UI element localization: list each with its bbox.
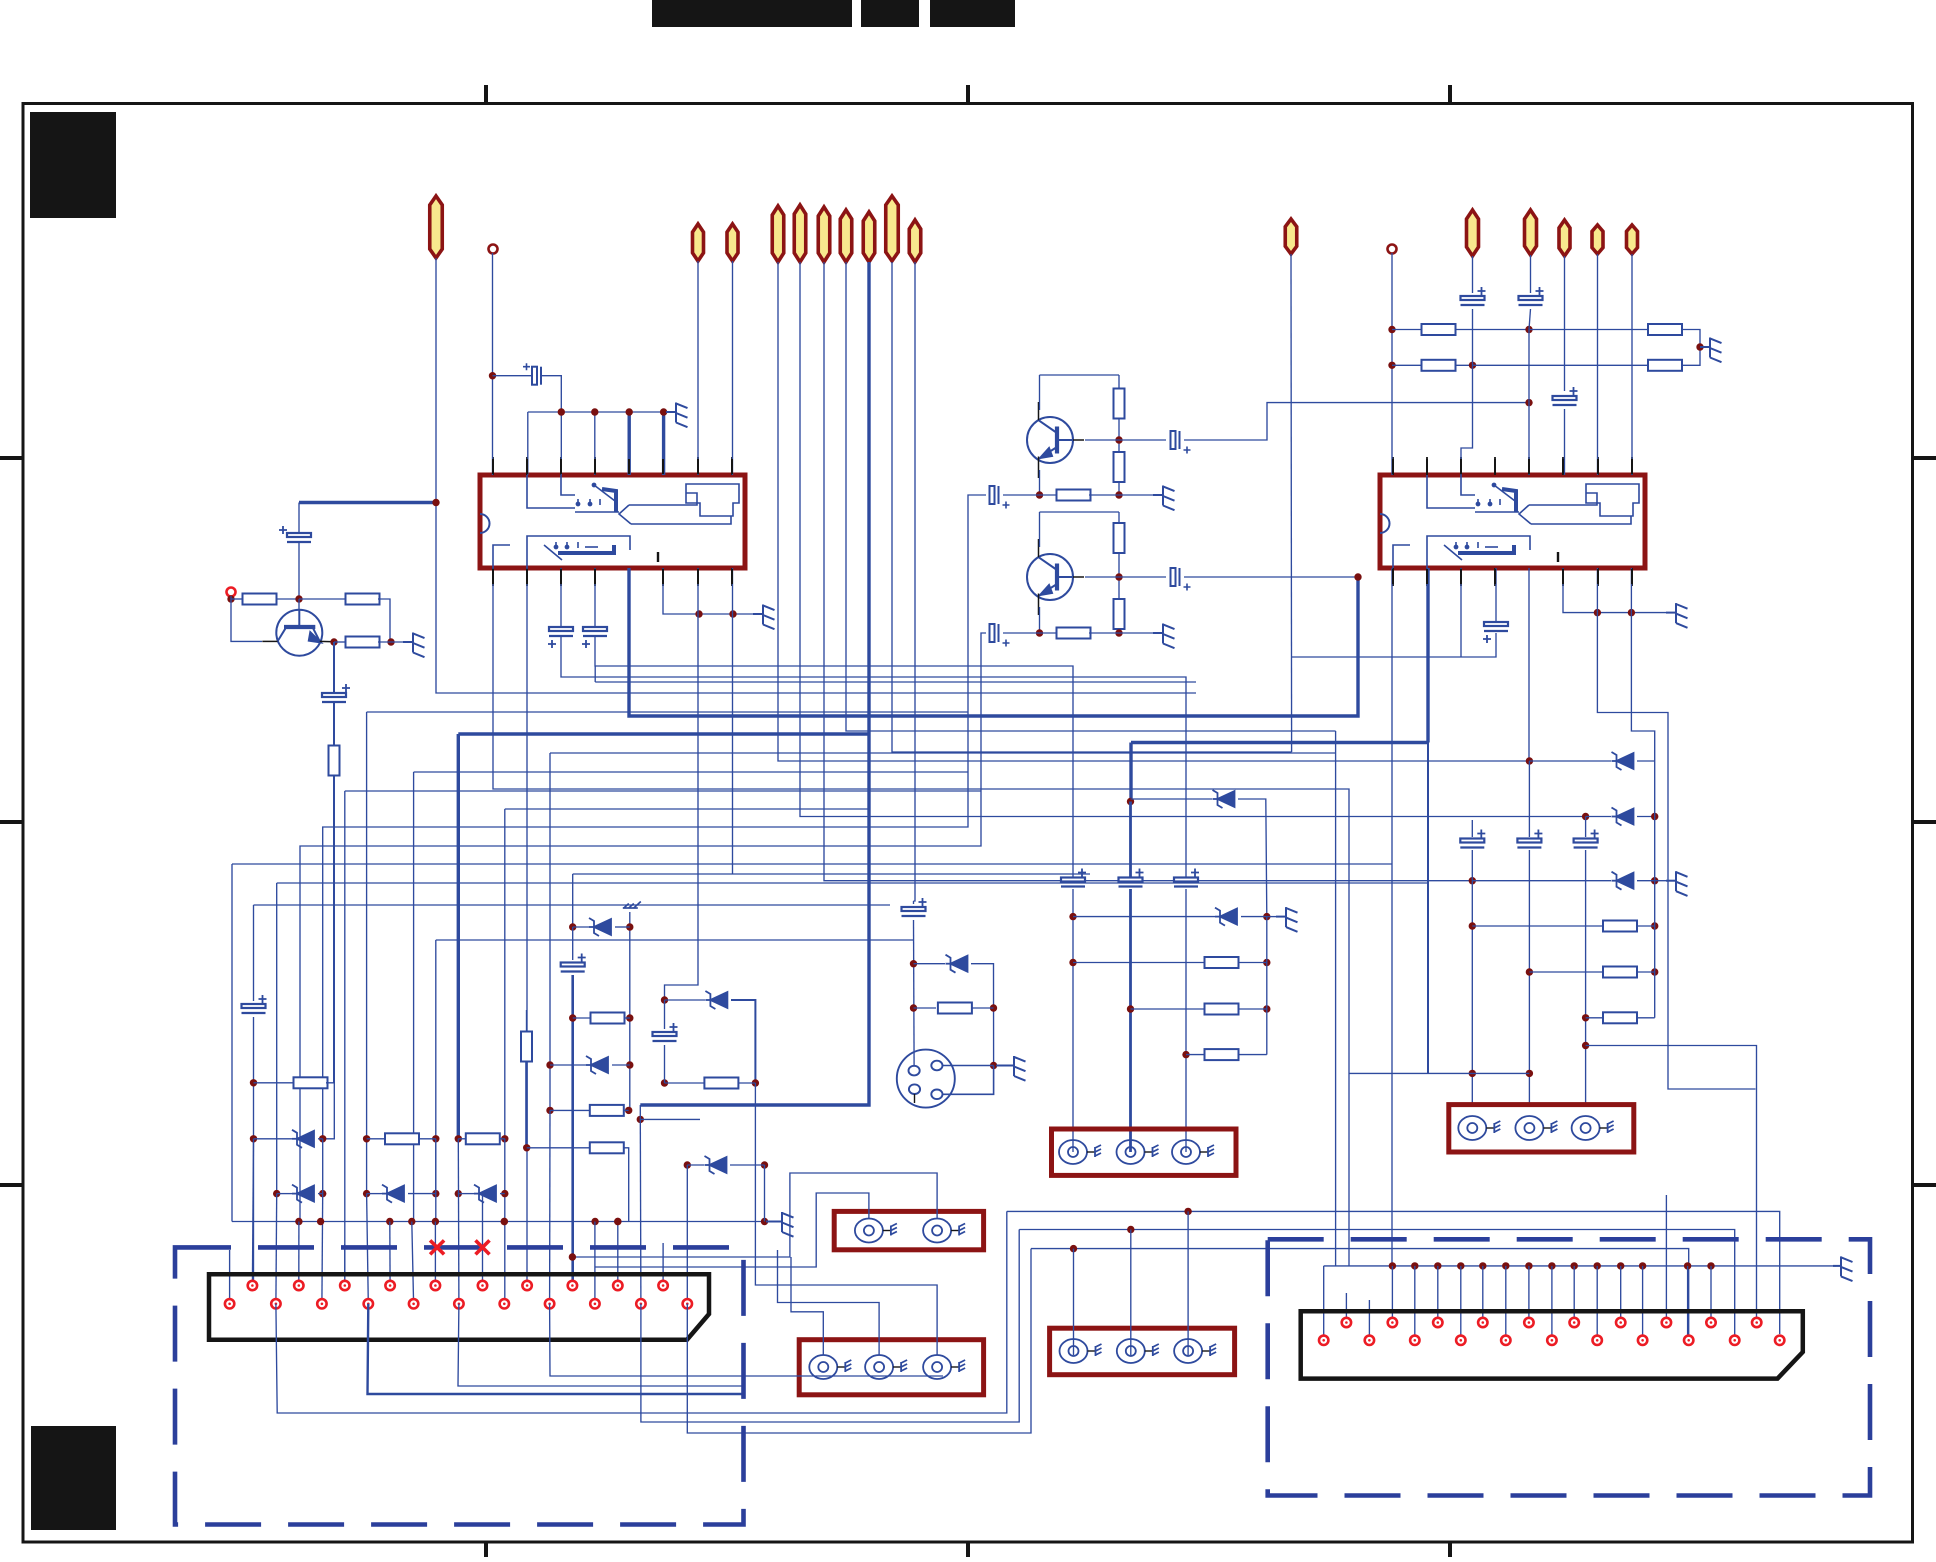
connector pin J8-top4 — [1478, 1318, 1487, 1327]
wire battery top — [298, 503, 300, 534]
node — [729, 610, 736, 617]
wire node to Q1 base — [298, 599, 300, 610]
IC U2 top pin stub — [1494, 457, 1496, 475]
capacitor C2 — [1171, 431, 1191, 454]
connector pin J8-bot3 — [1410, 1336, 1419, 1345]
IC pin stub overlay — [731, 569, 733, 584]
ground GND13 — [766, 1212, 794, 1237]
wire D7 cathode loop — [731, 1000, 755, 1083]
wire D9 cathode — [1241, 916, 1267, 918]
wire P14 down — [1564, 256, 1566, 391]
ground GND3 — [1666, 603, 1688, 628]
wire SCART pin — [298, 1222, 300, 1286]
wire U2 pin 2 route lower — [1427, 743, 1429, 1074]
connector jack J1b — [1117, 1140, 1159, 1164]
wire R23 right — [738, 1082, 755, 1084]
ground GND5 — [1153, 624, 1175, 649]
node — [1434, 1262, 1441, 1269]
wire C14 to node — [1472, 309, 1474, 365]
wire to jack J5b — [1130, 1230, 1132, 1356]
diode D14 — [1213, 790, 1235, 808]
capacitor C14 — [1461, 287, 1486, 305]
resistor R15 — [1648, 360, 1682, 371]
node — [1651, 922, 1658, 929]
wire AV pin stub — [1368, 1300, 1370, 1340]
IC pin stub overlay — [560, 569, 562, 584]
resistor R17 — [385, 1133, 419, 1144]
wire D2 cathode — [318, 1193, 323, 1195]
wire right column link — [1654, 761, 1656, 1018]
capacitor C8 — [1460, 830, 1485, 848]
IC U2 bottom pin stub — [1392, 568, 1394, 586]
wire D5 anode — [573, 926, 589, 928]
wire to R12 — [1392, 329, 1424, 331]
ground GND1 — [666, 403, 688, 428]
wire battery to P1 net — [299, 501, 436, 504]
node — [408, 1218, 415, 1225]
wire to SCART pin — [275, 1194, 278, 1304]
wire route to jack J4a — [791, 1257, 823, 1355]
IC U1 pin-1 mark — [657, 552, 659, 562]
wire C12 to C7 — [561, 637, 1186, 877]
IC U2 flag outline — [1586, 484, 1639, 516]
resistor R30 — [1603, 1012, 1637, 1023]
node — [1263, 1005, 1270, 1012]
wire SCART pin — [412, 1222, 414, 1304]
connector pin J8-top7 — [1616, 1318, 1625, 1327]
resistor R7 — [1114, 452, 1125, 482]
IC pin stub overlay — [1562, 569, 1564, 584]
wire P3 to U1 pin 8 — [732, 261, 734, 475]
node — [432, 1190, 439, 1197]
connector pin J7-15 — [364, 1299, 373, 1308]
IC U1 bottom pin stub — [526, 568, 528, 586]
node — [910, 960, 917, 967]
wire C7 to jack J1c — [1185, 889, 1187, 1152]
wire net G down — [572, 874, 574, 927]
node — [661, 996, 668, 1003]
node — [363, 1190, 370, 1197]
resistor R22 — [590, 1142, 624, 1153]
wire R26 right — [1238, 1008, 1267, 1010]
wire D12 anode — [1472, 880, 1611, 882]
wire D5 cathode — [615, 926, 630, 928]
node — [295, 1218, 302, 1225]
wire R9 top — [1118, 512, 1120, 523]
wire to R24 — [914, 1007, 937, 1009]
wire thick net to U2 — [1131, 741, 1428, 744]
border tick — [1448, 85, 1452, 103]
connector pin J7-18 — [294, 1281, 303, 1290]
connector pin J8-bot8 — [1638, 1336, 1647, 1345]
wire C8 top stub — [1471, 820, 1473, 837]
IC U1 top pin stub — [526, 457, 528, 475]
node — [569, 1014, 576, 1021]
wire D4 cathode — [500, 1193, 505, 1195]
IC pin stub overlay — [1426, 459, 1428, 474]
connector jack J2c — [1572, 1116, 1614, 1140]
wire emitter to R8 — [1040, 494, 1059, 496]
wire C1 to supply bus — [542, 376, 561, 412]
connector jack J4b — [865, 1355, 907, 1379]
wire C19 stub — [913, 901, 915, 904]
connector pin P2 — [693, 224, 704, 261]
wire to SCART pin 21 — [686, 1165, 688, 1304]
node — [546, 1061, 553, 1068]
node — [1582, 1014, 1589, 1021]
resistor R14 — [1648, 324, 1682, 335]
IC U1 bottom pin stub — [731, 568, 733, 586]
node — [1594, 609, 1601, 616]
wire Q2 collector top — [1040, 374, 1120, 376]
wire R12 to node — [1455, 329, 1529, 331]
node — [387, 638, 394, 645]
wire C20 down to SCART — [253, 1017, 255, 1286]
resistor R13 — [1422, 360, 1456, 371]
wire AV bus to pin — [1710, 1266, 1712, 1323]
wire U1 pin 5 to Q3 output node — [629, 568, 1358, 716]
connector pin P9 — [886, 196, 899, 261]
wire route to jack J3b — [572, 1173, 937, 1257]
wire long net B — [277, 882, 1428, 884]
wire net E down — [457, 734, 460, 1139]
wire P16 to U2 pin 8 — [1631, 254, 1633, 475]
IC U1 notch — [480, 514, 490, 533]
wire U1 pin to C12 — [560, 568, 562, 627]
IC pin stub overlay — [492, 459, 494, 474]
IC pin stub overlay — [1562, 459, 1564, 474]
connector pin P3 — [727, 224, 738, 261]
wire down to SCART pin — [504, 1139, 506, 1304]
wire AV bus to pin — [1528, 1266, 1530, 1323]
wire node to R14 — [1529, 329, 1649, 331]
connector pin J7-9 — [500, 1299, 509, 1308]
wire D2 anode — [277, 1193, 292, 1195]
wire long net H4 — [505, 808, 869, 810]
wire to SCART pin — [321, 1194, 324, 1304]
node — [455, 1190, 462, 1197]
node — [1651, 813, 1658, 820]
wire U2 pin to C11 — [1495, 568, 1497, 621]
IC U2 top pin stub — [1528, 457, 1530, 475]
wire R3 to ground — [378, 641, 403, 643]
IC U2 — [1380, 475, 1645, 568]
wire D10 cathode — [1637, 760, 1655, 762]
wire R21 top — [526, 1010, 528, 1032]
wire C8 down — [1471, 850, 1473, 1073]
wire net F down — [549, 753, 551, 1110]
node — [1639, 1262, 1646, 1269]
IC U2 top pin stub — [1597, 457, 1599, 475]
resistor R1 — [243, 594, 277, 605]
connector pin J7-17 — [317, 1299, 326, 1308]
wire R26 row — [1131, 1008, 1206, 1010]
wire node right — [640, 1118, 700, 1120]
node — [1127, 798, 1134, 805]
wire Q3 collector — [1039, 512, 1041, 547]
wire R25 row — [1073, 962, 1205, 964]
connector pin P16 — [1627, 225, 1638, 254]
connector pin P8 — [863, 212, 875, 262]
capacitor C21 — [561, 954, 586, 972]
wire D12 cathode — [1637, 880, 1655, 882]
wire SCART pin stub — [229, 1250, 231, 1304]
wire long net H5 — [254, 904, 891, 906]
IC U1 output arrow — [619, 493, 731, 524]
ground GND14 — [1833, 1256, 1853, 1281]
wire C10 down to jack — [1585, 850, 1587, 1105]
connector pin J8-bot5 — [1501, 1336, 1510, 1345]
IC pin stub overlay — [492, 569, 494, 584]
connector box J4 — [799, 1340, 983, 1395]
wire P1 long route — [436, 258, 1196, 693]
wire thick net down — [1129, 743, 1132, 802]
node — [432, 1218, 439, 1225]
wire Q3 base to divider — [1085, 576, 1119, 578]
capacitor C16 — [322, 684, 350, 702]
connector pin J7-12 — [431, 1281, 440, 1290]
node — [1582, 1042, 1589, 1049]
IC pin stub overlay — [697, 459, 699, 474]
IC pin stub overlay — [1494, 459, 1496, 474]
diode D4 — [474, 1185, 496, 1203]
IC U1 top pin stub — [560, 457, 562, 475]
wire bus to U1 pin 4 — [594, 412, 596, 475]
wire AV pin riser — [1665, 1195, 1667, 1323]
wire T2 to U2 pin 1 — [1391, 253, 1393, 475]
corner redaction block top-left — [30, 112, 116, 218]
wire Q3 out to C4 — [1119, 576, 1166, 578]
IC U1 top pin stub — [662, 457, 664, 475]
node — [1548, 1262, 1555, 1269]
wire net down to C6 — [1129, 802, 1132, 878]
node — [1263, 913, 1270, 920]
wire net B down — [276, 883, 278, 1194]
node — [501, 1218, 508, 1225]
wire C19 down to DIN — [913, 920, 916, 1066]
node — [752, 1079, 759, 1086]
connector box J5 — [1050, 1328, 1235, 1375]
node — [546, 1107, 553, 1114]
wire to C21 — [572, 927, 574, 960]
node — [761, 1161, 768, 1168]
connector pin J7-20 — [248, 1281, 257, 1290]
wire R27 row — [1186, 1054, 1205, 1056]
connector pin P1 — [430, 196, 443, 258]
node — [1411, 1262, 1418, 1269]
node — [1036, 491, 1043, 498]
wire U1 pin to ground bus — [663, 568, 753, 614]
wire emitter down to C16 — [333, 642, 335, 693]
wire node up — [639, 1105, 641, 1119]
node — [990, 1004, 997, 1011]
wire AV bus to pin — [1482, 1266, 1484, 1323]
IC pin stub overlay — [697, 569, 699, 584]
wire U2 route to D10 — [1631, 613, 1654, 761]
wire R11 to ground — [1089, 632, 1153, 634]
wire to SCART pin — [367, 1194, 369, 1304]
wire D10 to C9 — [1528, 761, 1530, 837]
wire D14 cathode down — [1238, 799, 1267, 917]
wire C3 input route — [323, 495, 986, 1139]
border tick — [966, 85, 970, 103]
capacitor C20 — [242, 995, 267, 1013]
wire SCART ground bus — [232, 1221, 765, 1223]
connector pin P7 — [840, 210, 852, 262]
wire U1 pin to C13 — [594, 568, 596, 627]
node — [455, 1135, 462, 1142]
wire C5c to emitter — [1003, 632, 1040, 634]
node — [695, 610, 702, 617]
wire C22 down — [664, 1045, 666, 1083]
IC U1 top pin stub — [697, 457, 699, 475]
node — [501, 1135, 508, 1142]
wire route to jack J3a — [595, 1193, 869, 1267]
diode D11 — [1612, 808, 1634, 826]
wire long net C — [367, 711, 968, 713]
node — [1571, 1262, 1578, 1269]
wire R8 to ground — [1089, 494, 1153, 496]
wire P7 route — [846, 262, 1336, 731]
IC pin stub overlay — [1631, 459, 1633, 474]
wire C18 to U2 pin 6 — [1564, 409, 1566, 475]
wire D8 anode — [914, 963, 946, 965]
node — [1651, 877, 1658, 884]
connector jack J2b — [1515, 1116, 1557, 1140]
wire node to R16 — [254, 1082, 296, 1084]
node — [317, 1218, 324, 1225]
node — [1525, 1262, 1532, 1269]
node — [1115, 491, 1122, 498]
IC pin stub overlay — [1392, 459, 1394, 474]
wire U1 pin 8 bottom — [732, 568, 734, 614]
wire U2 pin 8 bottom — [1630, 568, 1632, 613]
node — [250, 1079, 257, 1086]
wire R18 right — [499, 1138, 505, 1140]
wire P5 to D11 row — [800, 262, 1586, 817]
IC U1 top pin stub — [594, 457, 596, 475]
connector jack J1c — [1172, 1140, 1214, 1164]
wire AV bus to pin — [1414, 1266, 1416, 1340]
wire long net H2 — [414, 771, 968, 773]
wire to ground — [1655, 880, 1666, 882]
connector pin J7-13 — [409, 1299, 418, 1308]
node — [1388, 326, 1395, 333]
node — [591, 408, 598, 415]
IC pin stub overlay — [731, 459, 733, 474]
node — [1469, 1070, 1476, 1077]
wire T3 to R1 — [231, 598, 243, 600]
border tick — [966, 1542, 970, 1557]
wire long net H3 — [345, 790, 981, 792]
resistor R25 — [1205, 957, 1239, 968]
wire C2 to U2 area — [1184, 403, 1529, 440]
IC pin stub overlay — [1392, 569, 1394, 584]
IC U2 bottom pin stub — [1562, 568, 1564, 586]
node — [319, 1135, 326, 1142]
wire C5c input route — [300, 633, 986, 1222]
connector jack J4a — [809, 1355, 851, 1379]
connector pin P10 — [909, 220, 921, 262]
wire D11 anode — [1586, 816, 1611, 818]
node — [501, 1218, 508, 1225]
resistor R3 — [346, 637, 380, 648]
wire R29 row — [1529, 971, 1603, 973]
IC U1 bottom pin stub — [594, 568, 596, 586]
connector DIN socket J6 — [897, 1050, 955, 1108]
wire D1-D2 link — [322, 1139, 324, 1194]
connector SCART J7 — [209, 1274, 709, 1340]
node — [1469, 922, 1476, 929]
node — [363, 1135, 370, 1142]
node — [432, 499, 439, 506]
node — [1617, 1262, 1624, 1269]
connector pin J8-top6 — [1570, 1318, 1579, 1327]
wire node down to SCART pin — [639, 1119, 642, 1303]
IC pin stub overlay — [594, 569, 596, 584]
node — [761, 1218, 768, 1225]
wire emitter to R3 — [334, 641, 347, 643]
node — [1707, 1262, 1714, 1269]
connector pin J7-7 — [545, 1299, 554, 1308]
wire R29 right — [1637, 971, 1655, 973]
wire to R18 — [458, 1138, 467, 1140]
wire to R17 — [367, 1138, 385, 1140]
wire U1 pin 2 to SCART pin 7 — [526, 568, 528, 1286]
diode D10 — [1612, 752, 1634, 770]
node — [1469, 877, 1476, 884]
connector pin J7-8 — [522, 1281, 531, 1290]
wire C6 to jack J1b — [1129, 889, 1132, 1152]
wire AV bus to pin — [1505, 1266, 1507, 1340]
diode D13 — [705, 1156, 727, 1174]
node — [1526, 757, 1533, 764]
wire net H3 down — [344, 791, 346, 1286]
cut mark X1 — [430, 1240, 444, 1254]
resistor R4 — [329, 746, 340, 776]
connector pin J8-bot4 — [1456, 1336, 1465, 1345]
wire SCART fan 2 — [368, 1304, 744, 1394]
wire R21 to R22 row — [525, 1061, 528, 1148]
node — [295, 595, 302, 602]
IC U1 flag outline — [686, 484, 739, 516]
title redaction bar 2 — [861, 0, 919, 27]
IC pin stub overlay — [1460, 569, 1462, 584]
connector jack J1a — [1059, 1140, 1101, 1164]
wire SCART fan 1 — [276, 1211, 1007, 1413]
wire SCART pin stub — [662, 1243, 664, 1286]
wire U1 pin 7 bottom — [697, 568, 699, 614]
connector pin J7-19 — [271, 1299, 280, 1308]
IC U2 lower switch — [1393, 536, 1530, 568]
node — [386, 1218, 393, 1225]
resistor R8 — [1057, 490, 1091, 501]
wire thick net E — [458, 732, 869, 735]
IC U1 lower switch — [493, 536, 630, 568]
wire net H hook — [594, 666, 596, 682]
connector pin J7-3 — [636, 1299, 645, 1308]
capacitor C10 — [1574, 830, 1599, 848]
IC U2 upper switch — [1427, 475, 1519, 512]
connector pin J7-21 — [225, 1299, 234, 1308]
wire bus to U1 pin 3 — [560, 412, 562, 475]
capacitor C7 — [1174, 869, 1199, 887]
wire P4 to D10 row — [778, 262, 1529, 761]
node — [1526, 968, 1533, 975]
node — [273, 1190, 280, 1197]
wire D11 to C10 — [1585, 817, 1587, 838]
IC U2 top pin stub — [1426, 457, 1428, 475]
